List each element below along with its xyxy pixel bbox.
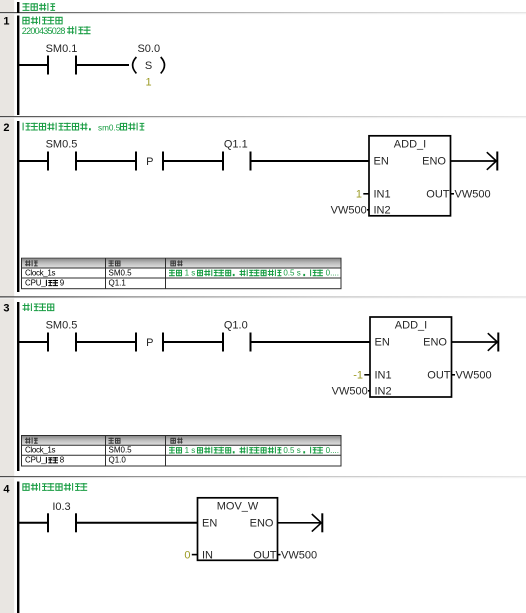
svg-text:Clock_1s: Clock_1s	[25, 268, 55, 277]
svg-text:VW500: VW500	[332, 386, 368, 398]
pin EN	[374, 156, 389, 168]
pin EN	[375, 337, 390, 349]
svg-text:1: 1	[3, 16, 9, 28]
svg-text:EN: EN	[202, 518, 217, 530]
program comment marker bar	[17, 2, 19, 13]
pin OUT	[426, 189, 450, 201]
svg-text:1: 1	[356, 189, 362, 201]
svg-text:S: S	[145, 60, 152, 72]
svg-text:SM0.1: SM0.1	[46, 43, 78, 55]
wire: contact 1 to contact P	[76, 160, 136, 162]
svg-text:3: 3	[3, 303, 9, 315]
svg-text:ENO: ENO	[250, 518, 274, 530]
svg-text:EN: EN	[375, 337, 390, 349]
network 1 number	[3, 16, 9, 28]
svg-text:ADD_I: ADD_I	[394, 139, 426, 151]
network 1 comment line 2: 2200435028 + name	[22, 26, 91, 36]
svg-text:CPU_: CPU_	[25, 278, 46, 287]
svg-text:Q1.1: Q1.1	[109, 278, 127, 287]
contact Q1.1	[223, 138, 251, 170]
svg-text:1: 1	[146, 77, 152, 89]
function box ADD_I	[369, 136, 451, 216]
network 1 left power rail	[17, 16, 19, 116]
contact I0.3	[48, 501, 76, 533]
network 3 left power rail	[17, 302, 19, 471]
network 3 number	[3, 303, 9, 315]
pin IN	[202, 549, 213, 561]
coil S operand count 1	[146, 77, 152, 89]
table row CPU output Q1.0	[25, 456, 126, 465]
svg-text:IN1: IN1	[375, 370, 392, 382]
network 4 number	[3, 483, 10, 495]
svg-text:IN: IN	[202, 549, 213, 561]
network separator 1	[0, 116, 526, 118]
svg-text:-1: -1	[353, 370, 363, 382]
svg-text:Q1.1: Q1.1	[224, 138, 248, 150]
table row CPU output Q1.1	[25, 278, 126, 287]
svg-text:0.5 s: 0.5 s	[283, 269, 300, 278]
positive edge contact P	[136, 152, 163, 171]
svg-text:SM0.5: SM0.5	[109, 268, 133, 277]
symbol table frame	[22, 258, 342, 289]
svg-text:OUT: OUT	[427, 370, 451, 382]
svg-text:P: P	[146, 337, 153, 349]
wire: rail to contact SM0.1	[19, 64, 48, 66]
network 2 left power rail	[17, 121, 19, 292]
pin ENO	[423, 337, 447, 349]
network separator 0	[0, 12, 526, 14]
wire: rail to contact 1	[19, 160, 48, 162]
pin IN1	[375, 370, 392, 382]
pin ENO	[250, 518, 274, 530]
svg-text:1 s: 1 s	[185, 446, 196, 455]
table headers symbol/address/comment	[25, 438, 183, 444]
svg-text:IN2: IN2	[375, 386, 392, 398]
svg-text:SM0.5: SM0.5	[109, 446, 133, 455]
svg-text:I0.3: I0.3	[52, 501, 70, 513]
pin ENO	[422, 156, 446, 168]
OUT value VW500	[278, 549, 318, 561]
wire: contact P to contact 3	[163, 341, 223, 343]
svg-text:Clock_1s: Clock_1s	[25, 446, 55, 455]
symbol table frame	[22, 436, 342, 467]
positive edge contact P	[136, 333, 163, 352]
set coil S0.0	[133, 43, 165, 73]
rung continuation arrow network 2	[451, 152, 498, 171]
table row Clock_1s / SM0.5	[25, 268, 132, 277]
function box ADD_I	[370, 317, 452, 397]
pin OUT	[253, 549, 277, 561]
svg-text:IN1: IN1	[374, 189, 391, 201]
contact SM0.5	[46, 319, 78, 351]
wire: contact SM0.1 to coil	[76, 64, 129, 66]
svg-text:ENO: ENO	[423, 337, 447, 349]
network separator 2	[0, 296, 526, 298]
network separator 3	[0, 476, 526, 478]
contact Q1.0	[223, 319, 251, 351]
svg-text:VW500: VW500	[456, 370, 492, 382]
network 2 title comment (green)	[23, 123, 144, 133]
wire: rail to contact 1	[19, 341, 48, 343]
svg-text:Q1.0: Q1.0	[224, 319, 248, 331]
svg-text:CPU_: CPU_	[25, 456, 46, 465]
svg-text:S0.0: S0.0	[137, 43, 160, 55]
svg-text:2200435028: 2200435028	[22, 26, 66, 36]
OUT value VW500	[451, 189, 491, 201]
IN2 value VW500	[331, 205, 369, 217]
wire: contact I0.3 to MOV_W EN	[76, 522, 198, 524]
pin OUT	[427, 370, 451, 382]
contact SM0.5	[46, 138, 78, 170]
svg-text:P: P	[146, 156, 153, 168]
network 4 title comment (green)	[23, 483, 87, 491]
svg-text:sm0.5: sm0.5	[98, 123, 121, 132]
table headers symbol/address/comment	[25, 260, 183, 266]
wire: contact P to contact 3	[163, 160, 223, 162]
pin IN2	[374, 205, 391, 217]
svg-text:9: 9	[60, 278, 65, 287]
rung continuation arrow network 3	[452, 333, 499, 352]
svg-text:2: 2	[3, 122, 9, 134]
program comment text (green CJK)	[23, 3, 56, 11]
svg-text:0: 0	[184, 549, 190, 561]
svg-text:OUT: OUT	[426, 189, 450, 201]
IN2 value VW500	[332, 386, 370, 398]
svg-text:Q1.0: Q1.0	[109, 456, 127, 465]
rung continuation arrow network 4	[278, 513, 323, 532]
network 4 left power rail	[17, 482, 19, 613]
svg-text:EN: EN	[374, 156, 389, 168]
wire: contact 1 to contact P	[76, 341, 136, 343]
svg-text:0.5 s: 0.5 s	[283, 446, 300, 455]
svg-text:MOV_W: MOV_W	[217, 501, 259, 513]
network 3 title comment (green)	[23, 303, 54, 311]
svg-text:4: 4	[3, 483, 10, 495]
IN value 0	[184, 549, 197, 561]
network 1 title comment (green CJK)	[23, 17, 62, 25]
pin EN	[202, 518, 217, 530]
IN1 value -1	[353, 370, 370, 382]
pin IN2	[375, 386, 392, 398]
svg-text:0....: 0....	[326, 269, 339, 278]
pin IN1	[374, 189, 391, 201]
svg-text:ADD_I: ADD_I	[395, 320, 427, 332]
network 2 number	[3, 122, 9, 134]
svg-text:ENO: ENO	[422, 156, 446, 168]
table row1 green comment	[169, 446, 339, 455]
svg-text:SM0.5: SM0.5	[46, 138, 78, 150]
svg-text:SM0.5: SM0.5	[46, 319, 78, 331]
wire: contact Q1.1 to ADD_I EN	[251, 160, 370, 162]
table row Clock_1s / SM0.5	[25, 446, 132, 455]
wire: rail to contact I0.3	[19, 522, 48, 524]
svg-text:IN2: IN2	[374, 205, 391, 217]
svg-text:OUT: OUT	[253, 549, 277, 561]
OUT value VW500	[452, 370, 492, 382]
svg-text:VW500: VW500	[455, 189, 491, 201]
contact SM0.1	[46, 43, 78, 74]
svg-text:8: 8	[60, 456, 65, 465]
svg-text:0....: 0....	[326, 446, 339, 455]
wire: contact Q1.0 to ADD_I EN	[251, 341, 371, 343]
svg-text:VW500: VW500	[281, 549, 317, 561]
function box MOV_W	[198, 498, 278, 561]
table row1 green comment	[169, 269, 339, 278]
svg-text:VW500: VW500	[331, 205, 367, 217]
left margin sidebar	[0, 0, 14, 613]
IN1 value 1	[356, 189, 369, 201]
svg-text:1 s: 1 s	[185, 269, 196, 278]
